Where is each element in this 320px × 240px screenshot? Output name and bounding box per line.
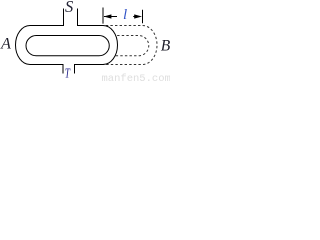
- svg-text:l: l: [123, 7, 127, 23]
- svg-text:A: A: [0, 35, 11, 52]
- svg-text:T: T: [65, 67, 71, 82]
- svg-text:manfen5.com: manfen5.com: [102, 73, 171, 83]
- svg-text:B: B: [161, 37, 170, 54]
- svg-text:S: S: [65, 0, 73, 16]
